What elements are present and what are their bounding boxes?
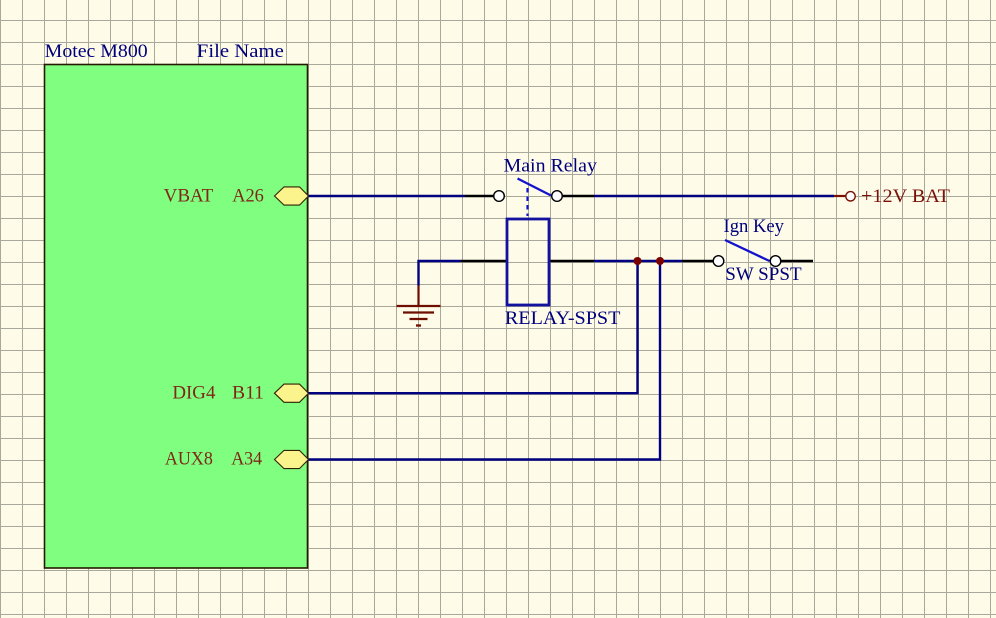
svg-text:+12V BAT: +12V BAT (861, 186, 950, 207)
svg-text:A34: A34 (231, 449, 262, 470)
svg-text:RELAY-SPST: RELAY-SPST (505, 308, 621, 329)
svg-text:A26: A26 (232, 186, 264, 207)
svg-text:SW SPST: SW SPST (725, 264, 802, 285)
port AUX8 A34: hexagon (275, 450, 309, 468)
relay switch contact circles (494, 191, 505, 202)
switch S1 Ign Key: pin stubs (black) (682, 260, 813, 262)
power terminal circle (846, 192, 855, 201)
svg-text:DIG4: DIG4 (172, 382, 215, 403)
wire: AUX8 net (308, 261, 660, 460)
wire: VBAT net from port to relay switch (308, 195, 465, 197)
junction dot on AUX8 net (656, 257, 664, 265)
wire: GND corner to relay coil (419, 261, 462, 286)
svg-text:B11: B11 (232, 382, 264, 403)
wire: relay switch to +12V BAT terminal (594, 195, 834, 197)
port VBAT A26: hexagon (275, 187, 309, 205)
relay switch blade (blue diagonal) (518, 179, 552, 196)
junction dot on DIG4 net (634, 257, 642, 265)
switch blade (blue diagonal) (725, 240, 770, 261)
svg-text:VBAT: VBAT (164, 186, 214, 207)
port DIG4 B11: hexagon (275, 384, 309, 402)
power terminal +12V BAT: lead (834, 195, 846, 197)
ground symbol bars (397, 306, 441, 326)
svg-text:Motec M800: Motec M800 (45, 41, 148, 62)
wire: DIG4 net (308, 261, 638, 393)
ground symbol lead (maroon) (417, 286, 419, 306)
relay coil box (507, 219, 549, 305)
relay LS1: pin stubs (black) (461, 196, 594, 261)
svg-text:AUX8: AUX8 (165, 449, 213, 470)
svg-text:Ign Key: Ign Key (724, 216, 785, 237)
svg-text:File Name: File Name (197, 41, 284, 62)
relay dashed actuator link (526, 188, 528, 216)
switch contact circles (713, 256, 724, 267)
svg-text:Main Relay: Main Relay (504, 155, 598, 176)
sheet symbol U: Motec M800 (green block) (45, 65, 308, 569)
wire: relay coil to ign key switch (594, 260, 682, 262)
